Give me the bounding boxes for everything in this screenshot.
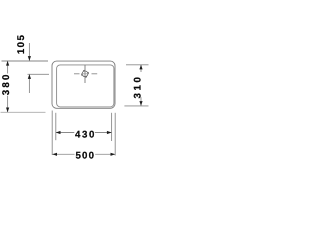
arrow down 105 — [28, 56, 31, 61]
430 dimension line left segment — [56, 132, 74, 134]
500 dimension line right segment — [95, 153, 115, 155]
inner basin edge (430 x 310) — [57, 65, 114, 107]
310 top extension — [126, 64, 149, 66]
arrow left 500 — [52, 153, 57, 156]
top extension line — [2, 60, 49, 62]
arrow up 380 top — [6, 61, 9, 66]
430 right extension — [111, 113, 113, 141]
arrow right 500 — [111, 153, 116, 156]
faucet hole circle — [82, 71, 88, 77]
105 dimension line lower segment — [28, 74, 30, 93]
svg-text:380: 380 — [1, 72, 12, 95]
faucet hole dashed diagonal ticks — [82, 70, 89, 77]
bottom extension line — [1, 111, 46, 113]
380 dimension line upper segment — [7, 61, 9, 73]
105 dimension line upper segment — [28, 43, 30, 61]
500 dimension line left segment — [53, 153, 75, 155]
hole horizontal centerline right dash — [92, 73, 98, 75]
hole horizontal centerline left dash — [74, 73, 80, 75]
svg-text:105: 105 — [16, 34, 27, 55]
380 dimension line lower segment — [7, 96, 9, 112]
arrow up 105 — [28, 74, 31, 79]
hole vertical centerline — [84, 65, 86, 83]
arrow left 430 — [56, 131, 61, 134]
arrow right 430 — [107, 131, 112, 134]
svg-text:310: 310 — [133, 75, 144, 99]
arrow down 380 bottom — [6, 108, 9, 113]
svg-text:430: 430 — [75, 129, 96, 140]
svg-text:500: 500 — [75, 150, 95, 161]
arrow up 310 — [139, 65, 142, 70]
arrow down 310 — [139, 101, 142, 106]
outer rim of basin (500 x 380) — [52, 61, 115, 108]
500 left extension — [51, 111, 53, 156]
430 left extension — [55, 113, 57, 140]
hole centerline extension (105 dim) — [28, 73, 50, 75]
430 dimension line right segment — [95, 132, 112, 134]
hole horizontal centerline middle dash — [81, 73, 89, 75]
310 bottom extension — [124, 105, 148, 107]
500 right extension — [114, 113, 116, 156]
310 dimension line upper segment — [140, 65, 142, 72]
310 dimension line lower segment — [140, 97, 142, 105]
